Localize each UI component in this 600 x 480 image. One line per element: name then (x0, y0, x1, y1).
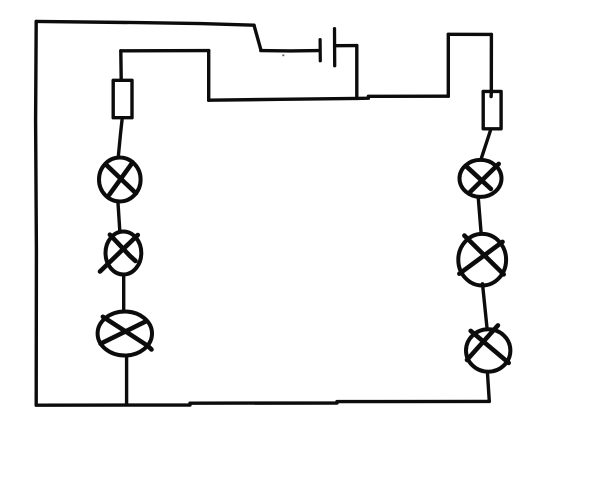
lamp L3 bulb (98, 312, 152, 356)
wire: tick overshoot into R2 top (489, 93, 493, 97)
lamp L5 X stroke 1 (464, 236, 503, 275)
wire: left branch top horizontal (121, 49, 209, 53)
lamp L6 X stroke 1 (471, 331, 509, 363)
wire: right riser up from middle rail (447, 34, 450, 96)
wire: L4 to L5 (478, 197, 481, 232)
lamp L3 X stroke 1 (103, 317, 152, 350)
lamp L2 X stroke 2 (100, 235, 138, 272)
wire: into resistor R1 (119, 51, 123, 79)
lamp L4 X stroke 1 (467, 167, 491, 189)
wire: from battery lead down to middle rail (355, 46, 358, 98)
lamp L5 bulb (458, 234, 506, 286)
wire: left branch riser (207, 51, 210, 101)
wire: L2 to L3 (122, 274, 125, 311)
wire: L5 to L6 (483, 284, 487, 327)
lamp L6 bulb (466, 329, 510, 371)
resistor R1 (113, 80, 132, 117)
battery BT1 positive (long) plate (333, 29, 337, 66)
wire: battery positive lead (335, 44, 357, 48)
lamp L1 X stroke 1 (106, 164, 136, 193)
lamp L1 bulb (99, 158, 141, 202)
lamp L6 X stroke 2 (467, 325, 498, 360)
stray ink dot near battery lead (282, 54, 284, 56)
wire: down into resistor R2 (490, 34, 494, 96)
lamp L4 X stroke 2 (470, 164, 499, 192)
lamp L2 X stroke 1 (110, 235, 136, 261)
lamp L3 X stroke 2 (101, 322, 146, 344)
wire: battery negative lead (261, 49, 319, 53)
wire: top horizontal (36, 21, 254, 25)
wire: middle rail, right part (slight step) (357, 96, 449, 98)
wire: middle rail, left part (209, 98, 357, 100)
wire: R2 to lamp L4 (482, 131, 491, 158)
wire: top-right horizontal (448, 33, 491, 37)
wire: R1 to lamp L1 (118, 119, 122, 155)
wire: L6 down to bottom rail (488, 374, 490, 402)
wire: L3 down to bottom rail (125, 355, 128, 403)
lamp L4 bulb (460, 160, 502, 197)
lamp L5 X stroke 2 (459, 242, 502, 274)
bottom rail (36, 401, 489, 405)
wire: L1 to L2 (118, 202, 120, 231)
wire: diagonal down into battery row (254, 25, 261, 49)
resistor R2 (483, 91, 501, 128)
lamp L1 X stroke 2 (109, 162, 132, 194)
battery BT1 negative (short) plate (319, 40, 322, 61)
wire: left side vertical (34, 21, 38, 404)
lamp L2 bulb (106, 232, 142, 275)
